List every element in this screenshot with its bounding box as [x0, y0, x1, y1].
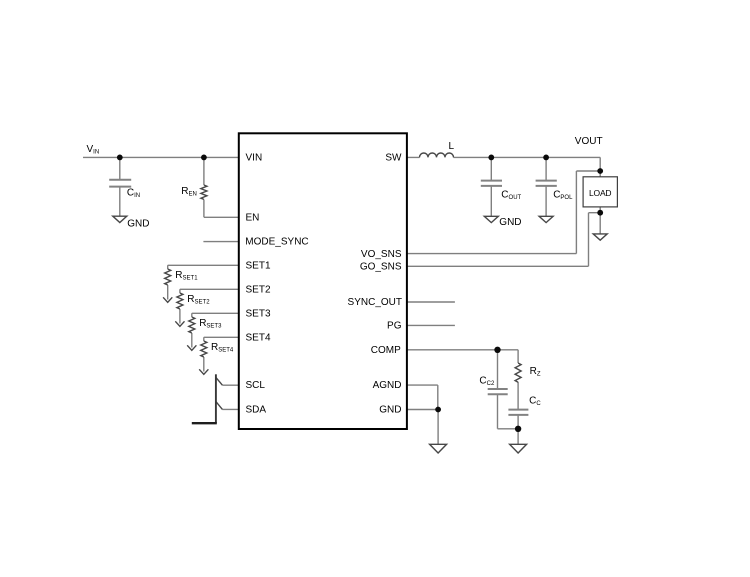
svg-text:CPOL: CPOL [553, 189, 573, 201]
svg-text:COUT: COUT [501, 189, 521, 201]
svg-text:COMP: COMP [371, 345, 401, 356]
svg-text:RSET2: RSET2 [187, 294, 210, 306]
svg-text:SET1: SET1 [246, 260, 271, 271]
svg-text:SW: SW [385, 153, 402, 164]
svg-text:L: L [449, 141, 455, 152]
svg-text:MODE_SYNC: MODE_SYNC [245, 236, 308, 247]
svg-text:CC2: CC2 [479, 376, 495, 388]
svg-text:GO_SNS: GO_SNS [360, 261, 402, 272]
svg-text:GND: GND [379, 405, 401, 416]
svg-text:EN: EN [246, 212, 260, 223]
svg-text:LOAD: LOAD [589, 188, 611, 198]
svg-text:REN: REN [181, 186, 197, 198]
svg-text:VIN: VIN [87, 144, 100, 156]
svg-text:AGND: AGND [373, 380, 402, 391]
svg-text:GND: GND [127, 219, 149, 230]
svg-text:VIN: VIN [246, 152, 263, 163]
svg-text:PG: PG [387, 321, 402, 332]
svg-text:VO_SNS: VO_SNS [361, 249, 402, 260]
svg-text:SYNC_OUT: SYNC_OUT [348, 297, 402, 308]
svg-text:VOUT: VOUT [575, 136, 603, 147]
svg-text:SCL: SCL [246, 380, 266, 391]
svg-text:SET3: SET3 [246, 308, 271, 319]
svg-text:RSET4: RSET4 [211, 342, 234, 354]
svg-text:SDA: SDA [246, 404, 267, 415]
svg-text:RSET1: RSET1 [175, 270, 198, 282]
svg-text:RZ: RZ [530, 366, 541, 378]
svg-text:CIN: CIN [127, 188, 140, 200]
svg-text:CC: CC [529, 396, 541, 408]
svg-text:GND: GND [499, 217, 521, 228]
svg-text:RSET3: RSET3 [199, 318, 222, 330]
svg-text:SET4: SET4 [246, 332, 271, 343]
svg-text:SET2: SET2 [246, 284, 271, 295]
